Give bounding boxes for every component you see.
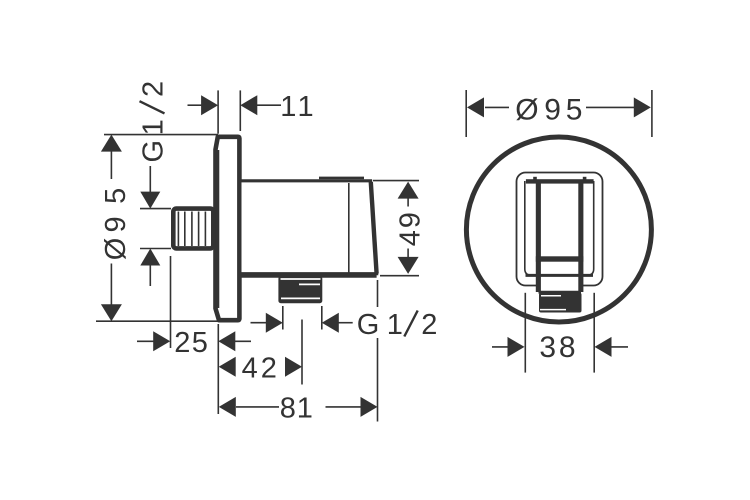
dimension 25 <box>137 327 251 359</box>
dimension 11 top <box>188 90 314 133</box>
holder inner outline <box>525 181 594 275</box>
holder outer plate front view <box>517 173 603 286</box>
fork top bar <box>526 177 594 292</box>
svg-text:42: 42 <box>242 352 277 384</box>
extension line x=170.5 (inlet thread left) <box>170 256 172 348</box>
dimension 38 bottom right <box>492 293 628 373</box>
svg-text:2: 2 <box>421 309 437 341</box>
centerline of outlet <box>301 320 303 385</box>
body block side view <box>242 178 377 276</box>
slash of G1/2 <box>404 311 417 337</box>
thread front view <box>539 293 582 313</box>
dimension Ø95 top right <box>466 90 652 137</box>
extension line x=218 (flange back) <box>217 324 219 414</box>
dimension 49 right <box>373 181 427 276</box>
dimension G1/2 left vertical <box>138 81 172 286</box>
fork left bar <box>536 183 541 292</box>
svg-text:Ø95: Ø95 <box>100 188 132 261</box>
svg-text:81: 81 <box>280 392 313 424</box>
inlet thread G1/2 left <box>173 209 213 249</box>
fork bottom cross bar <box>536 256 584 261</box>
outlet thread G1/2 bottom <box>278 276 322 303</box>
flange escutcheon side view <box>216 137 240 320</box>
dimension 81 <box>219 392 378 424</box>
body/cone separation line <box>348 183 350 273</box>
escutcheon circle front view <box>466 137 651 322</box>
svg-text:25: 25 <box>174 327 208 359</box>
top step on body <box>319 177 364 180</box>
svg-text:G12: G12 <box>138 81 170 163</box>
svg-text:49: 49 <box>395 212 427 246</box>
slash of G1/2 rotated <box>140 101 165 113</box>
dimension 42 <box>219 352 302 384</box>
fork right bar <box>578 183 583 292</box>
holder inner bottom thick line <box>526 274 594 277</box>
collar white fill over outer rect bottom edge <box>541 277 580 290</box>
dimension G1/2 bottom outlet <box>251 306 440 341</box>
svg-text:Ø95: Ø95 <box>515 93 582 126</box>
collar bottom edge <box>539 291 582 294</box>
svg-text:38: 38 <box>539 331 575 364</box>
dimension Ø95 left <box>96 135 218 322</box>
extension line x=377.5 (cone right) <box>377 280 379 307</box>
svg-text:11: 11 <box>280 91 313 123</box>
